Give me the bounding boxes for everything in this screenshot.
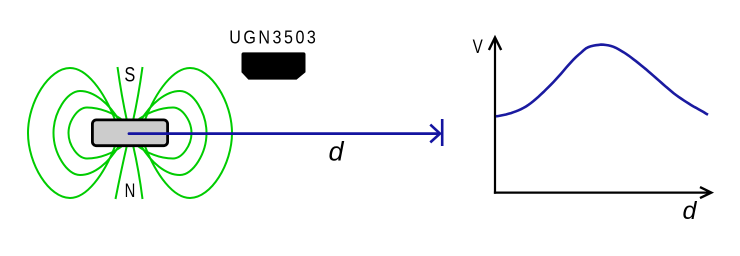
svg-text:V: V bbox=[473, 35, 483, 57]
distance arrow d bbox=[129, 119, 442, 146]
y axis bbox=[494, 38, 496, 194]
field line loop left 1 bbox=[28, 68, 116, 198]
x axis arrowhead bbox=[700, 187, 711, 198]
svg-text:d: d bbox=[683, 197, 698, 225]
y axis arrowhead bbox=[489, 38, 501, 51]
field line loop left 3 bbox=[69, 108, 124, 159]
field line loop left 2 bbox=[54, 91, 120, 175]
field line stub top-left bbox=[118, 67, 128, 121]
svg-text:S: S bbox=[124, 63, 135, 86]
V vs d response curve bbox=[496, 45, 708, 117]
field line loop right 1 bbox=[145, 68, 233, 198]
magnet body bbox=[92, 120, 167, 146]
field line stub bottom-left bbox=[116, 145, 128, 199]
svg-text:UGN3503: UGN3503 bbox=[229, 26, 318, 47]
x axis bbox=[494, 192, 710, 194]
wire: arrow shaft bbox=[129, 132, 439, 135]
Hall sensor package bbox=[242, 52, 306, 79]
field line stub top-right bbox=[133, 67, 143, 121]
field line stub bottom-right bbox=[133, 145, 143, 199]
graph axes bbox=[489, 38, 711, 199]
field line loop right 2 bbox=[141, 91, 207, 175]
stop bar bbox=[441, 119, 444, 146]
arrowhead bbox=[430, 125, 440, 143]
field line loop right 3 bbox=[137, 108, 192, 159]
svg-text:N: N bbox=[125, 180, 136, 201]
svg-text:d: d bbox=[329, 137, 345, 167]
